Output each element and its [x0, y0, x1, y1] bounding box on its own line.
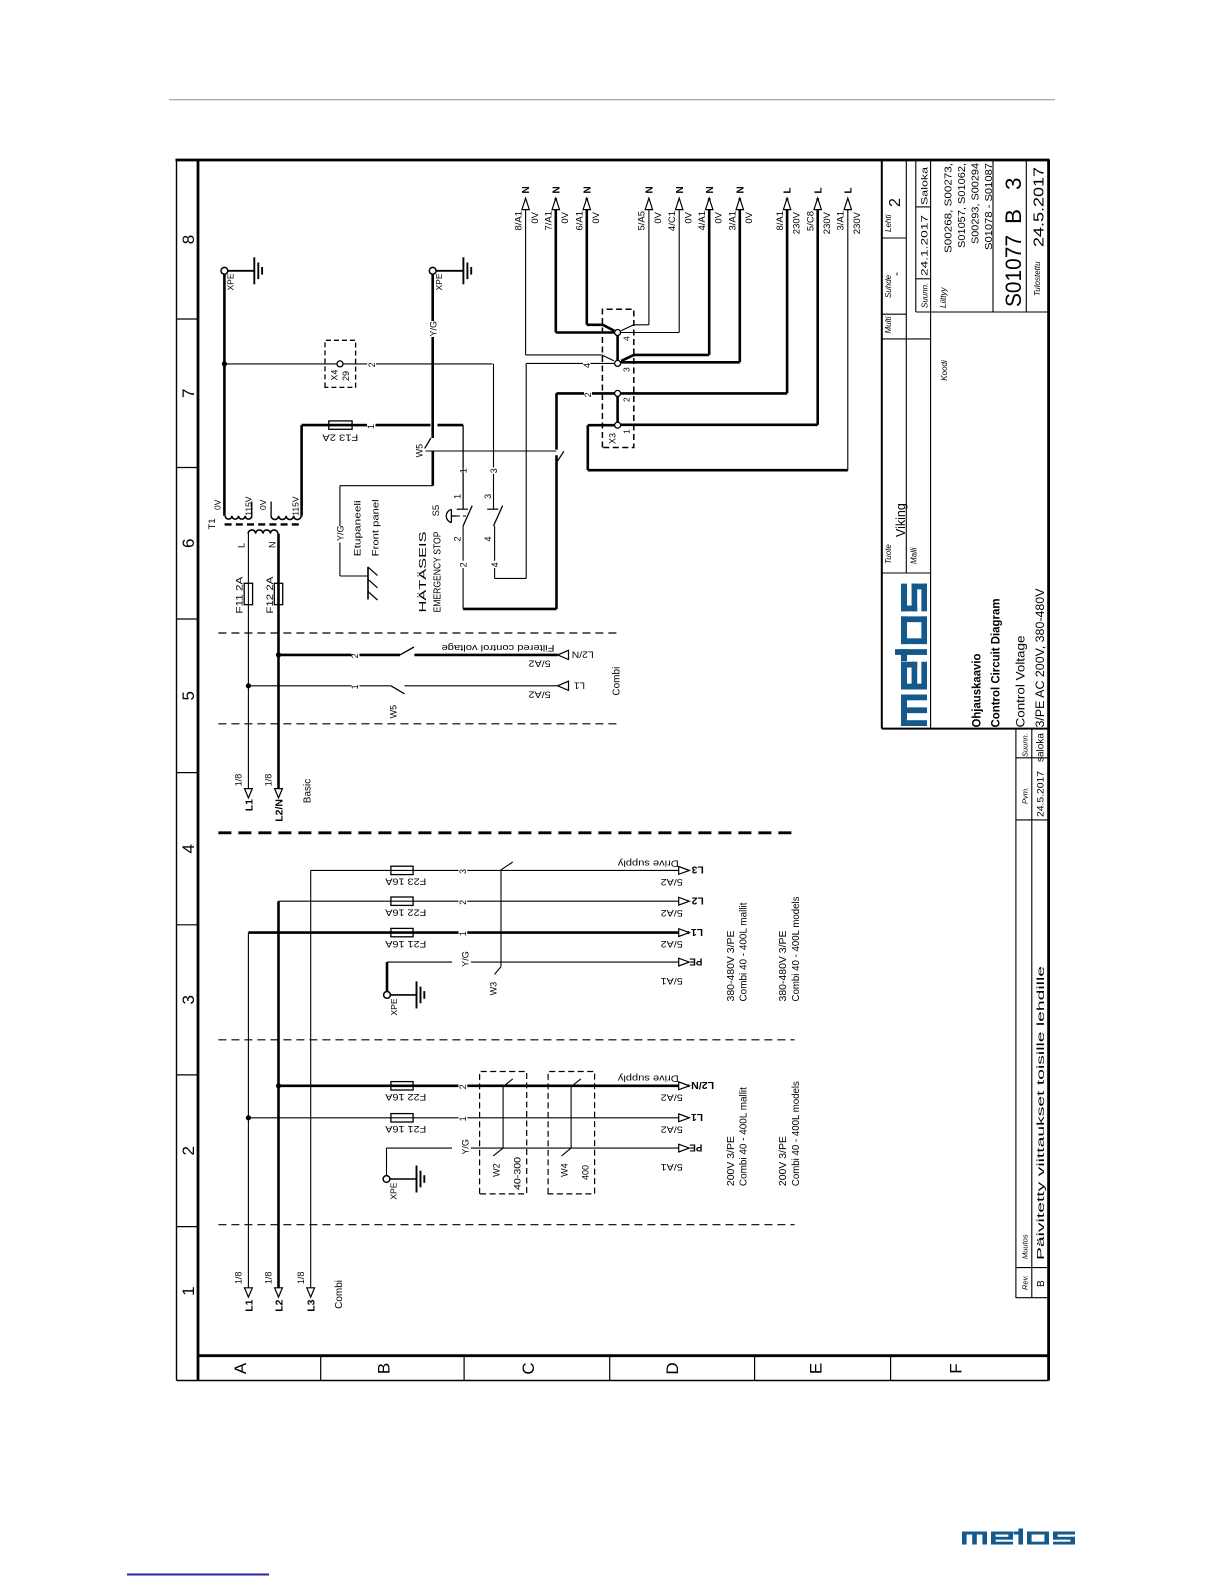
- svg-text:PE: PE: [689, 1141, 702, 1152]
- svg-text:0V: 0V: [530, 211, 541, 223]
- svg-text:L1: L1: [574, 681, 585, 691]
- svg-text:2: 2: [458, 900, 468, 905]
- svg-text:Suunn.: Suunn.: [1021, 733, 1030, 757]
- svg-text:5/A2: 5/A2: [661, 908, 683, 918]
- svg-text:T1: T1: [207, 518, 218, 529]
- svg-text:XPE: XPE: [226, 273, 236, 290]
- svg-text:230V: 230V: [791, 211, 802, 234]
- svg-text:N: N: [267, 542, 277, 549]
- svg-text:Muutos: Muutos: [1021, 1234, 1030, 1259]
- svg-text:L: L: [783, 187, 794, 193]
- svg-text:5/A1: 5/A1: [661, 1162, 683, 1172]
- svg-text:Päivitetty viittaukset toisill: Päivitetty viittaukset toisille lehdille: [1035, 966, 1047, 1260]
- svg-text:Combi 40 - 400L models: Combi 40 - 400L models: [791, 1081, 802, 1186]
- svg-text:3: 3: [483, 494, 493, 499]
- svg-text:Drive supply: Drive supply: [618, 1073, 679, 1084]
- svg-text:F23 16A: F23 16A: [385, 877, 426, 887]
- svg-text:L1: L1: [691, 926, 703, 937]
- svg-text:5/A2: 5/A2: [529, 690, 551, 700]
- svg-text:Y/G: Y/G: [461, 951, 471, 967]
- svg-text:6: 6: [179, 538, 198, 547]
- svg-text:3: 3: [1001, 177, 1026, 190]
- svg-text:Y/G: Y/G: [428, 321, 438, 337]
- svg-text:2: 2: [458, 1084, 468, 1089]
- svg-text:L1: L1: [243, 799, 255, 811]
- svg-text:5/A2: 5/A2: [661, 1092, 683, 1102]
- svg-text:W5: W5: [415, 444, 425, 458]
- svg-text:Lehti: Lehti: [884, 214, 893, 232]
- svg-text:L: L: [843, 187, 854, 193]
- svg-text:0V: 0V: [653, 211, 664, 223]
- svg-text:Control Circuit Diagram: Control Circuit Diagram: [991, 599, 1003, 728]
- svg-text:0V: 0V: [258, 499, 268, 510]
- svg-text:S01057, S01062,: S01057, S01062,: [956, 163, 968, 248]
- svg-text:7/A1: 7/A1: [544, 211, 555, 231]
- svg-text:N: N: [705, 186, 716, 193]
- svg-text:Pvm.: Pvm.: [1021, 787, 1030, 804]
- svg-text:2: 2: [622, 397, 632, 402]
- svg-text:N: N: [645, 186, 656, 193]
- svg-text:29: 29: [341, 371, 351, 381]
- svg-text:3/A1: 3/A1: [836, 211, 847, 231]
- svg-text:XPE: XPE: [434, 273, 444, 290]
- svg-text:Liittyy: Liittyy: [939, 287, 948, 308]
- svg-text:2: 2: [453, 536, 463, 541]
- svg-text:4: 4: [483, 536, 493, 541]
- svg-text:L2/N: L2/N: [691, 1079, 714, 1090]
- svg-text:Ohjauskaavio: Ohjauskaavio: [972, 654, 984, 728]
- svg-text:40-300: 40-300: [512, 1157, 522, 1190]
- svg-text:1/8: 1/8: [296, 1272, 306, 1285]
- svg-text:Combi: Combi: [612, 667, 623, 696]
- svg-text:3/A1: 3/A1: [728, 211, 739, 231]
- svg-text:1: 1: [366, 424, 376, 429]
- svg-text:F12 2A: F12 2A: [265, 577, 275, 614]
- svg-text:6/A1: 6/A1: [575, 211, 586, 231]
- svg-text:1: 1: [622, 429, 632, 434]
- svg-text:N: N: [675, 186, 686, 193]
- svg-text:Y/G: Y/G: [335, 525, 345, 541]
- svg-text:0V: 0V: [713, 211, 724, 223]
- svg-text:L3: L3: [306, 1299, 318, 1311]
- svg-text:S01077: S01077: [1001, 235, 1026, 307]
- svg-text:1: 1: [179, 1286, 198, 1295]
- svg-text:F13 2A: F13 2A: [322, 433, 358, 443]
- svg-text:1/8: 1/8: [234, 1272, 244, 1285]
- svg-text:Filtered control voltage: Filtered control voltage: [441, 642, 554, 653]
- svg-text:Front panel: Front panel: [371, 499, 382, 556]
- svg-text:XPE: XPE: [389, 998, 399, 1015]
- svg-text:1: 1: [452, 494, 462, 499]
- svg-text:0V: 0V: [744, 211, 755, 223]
- svg-text:F21 16A: F21 16A: [385, 939, 426, 949]
- svg-text:S01078 - S01087: S01078 - S01087: [983, 163, 995, 250]
- svg-text:X4: X4: [330, 370, 340, 381]
- svg-text:0V: 0V: [560, 211, 571, 223]
- svg-text:B: B: [1001, 209, 1026, 224]
- svg-text:380-480V 3/PE: 380-480V 3/PE: [726, 930, 737, 1001]
- svg-text:N: N: [521, 186, 532, 193]
- svg-text:XPE: XPE: [389, 1182, 399, 1199]
- svg-text:24.1.2017: 24.1.2017: [920, 215, 931, 276]
- svg-text:F22 16A: F22 16A: [385, 1092, 426, 1102]
- svg-text:2: 2: [367, 362, 377, 367]
- svg-text:3/PE AC 200V, 380-480V: 3/PE AC 200V, 380-480V: [1035, 588, 1047, 727]
- svg-text:E: E: [807, 1363, 826, 1374]
- svg-text:W5: W5: [389, 705, 399, 719]
- svg-text:L3: L3: [691, 864, 703, 875]
- svg-text:Combi 40 - 400L mallit: Combi 40 - 400L mallit: [739, 1087, 750, 1186]
- svg-text:5/A5: 5/A5: [637, 211, 648, 231]
- svg-text:7: 7: [179, 388, 198, 397]
- svg-text:Combi: Combi: [334, 1280, 345, 1309]
- svg-text:Control Voltage: Control Voltage: [1016, 636, 1028, 728]
- svg-text:1/8: 1/8: [264, 1272, 274, 1285]
- svg-text:5/A2: 5/A2: [661, 939, 683, 949]
- svg-text:8: 8: [179, 235, 198, 244]
- svg-text:F: F: [946, 1363, 965, 1373]
- svg-text:8/A1: 8/A1: [775, 211, 786, 231]
- svg-text:B: B: [1036, 1280, 1047, 1287]
- svg-text:1/8: 1/8: [234, 774, 244, 787]
- svg-text:L1: L1: [243, 1299, 255, 1311]
- svg-text:EMERGENCY STOP: EMERGENCY STOP: [433, 531, 444, 612]
- svg-text:PE: PE: [689, 955, 702, 966]
- svg-text:L2/N: L2/N: [572, 650, 594, 660]
- svg-text:Malli: Malli: [910, 547, 919, 564]
- svg-text:Suunn.: Suunn.: [921, 283, 930, 308]
- svg-text:Viking: Viking: [894, 503, 908, 537]
- svg-text:X3: X3: [608, 433, 618, 444]
- svg-text:115V: 115V: [243, 496, 253, 516]
- svg-text:230V: 230V: [852, 211, 863, 234]
- svg-text:200V 3/PE: 200V 3/PE: [726, 1136, 737, 1186]
- svg-text:Drive supply: Drive supply: [618, 857, 679, 868]
- svg-text:F21 16A: F21 16A: [385, 1124, 426, 1134]
- svg-text:24.5.2017: 24.5.2017: [1036, 771, 1047, 817]
- svg-text:Saloka: Saloka: [920, 166, 931, 205]
- svg-text:1: 1: [458, 931, 468, 936]
- svg-text:24.5.2017: 24.5.2017: [1032, 167, 1048, 247]
- svg-text:Combi 40 - 400L models: Combi 40 - 400L models: [791, 897, 802, 1002]
- svg-text:5/A1: 5/A1: [661, 976, 683, 986]
- svg-text:200V 3/PE: 200V 3/PE: [778, 1136, 789, 1186]
- svg-text:L2/N: L2/N: [273, 799, 285, 822]
- svg-text:L: L: [813, 187, 824, 193]
- svg-text:Basic: Basic: [303, 779, 314, 803]
- svg-text:3: 3: [489, 468, 499, 473]
- svg-text:1: 1: [458, 1116, 468, 1121]
- svg-text:B: B: [374, 1363, 393, 1374]
- svg-text:Koodi: Koodi: [940, 360, 949, 381]
- svg-text:S5: S5: [431, 505, 442, 517]
- svg-text:Tuote: Tuote: [884, 544, 893, 564]
- svg-text:Suhde: Suhde: [884, 274, 893, 298]
- svg-text:5: 5: [179, 691, 198, 700]
- svg-text:F11 2A: F11 2A: [235, 577, 245, 614]
- svg-text:L: L: [237, 543, 247, 548]
- svg-text:5/C8: 5/C8: [806, 211, 817, 231]
- svg-text:Etupaneeli: Etupaneeli: [353, 500, 364, 556]
- svg-text:3: 3: [179, 995, 198, 1004]
- svg-text:3: 3: [458, 869, 468, 874]
- svg-text:2: 2: [459, 562, 469, 567]
- svg-text:N: N: [735, 186, 746, 193]
- svg-text:8/A1: 8/A1: [513, 211, 524, 231]
- svg-text:HÄTÄSEIS: HÄTÄSEIS: [417, 532, 429, 613]
- svg-text:2: 2: [887, 198, 904, 207]
- svg-text:S00268, S00273,: S00268, S00273,: [943, 163, 955, 253]
- svg-text:C: C: [519, 1362, 538, 1374]
- svg-text:4/A1: 4/A1: [697, 211, 708, 231]
- svg-text:L2: L2: [273, 1299, 285, 1311]
- svg-text:230V: 230V: [822, 211, 833, 234]
- svg-text:0V: 0V: [591, 211, 602, 223]
- svg-text:4/C1: 4/C1: [667, 211, 678, 231]
- svg-text:N: N: [582, 186, 593, 193]
- svg-text:1: 1: [350, 684, 360, 689]
- svg-text:-: -: [889, 272, 903, 276]
- svg-text:2: 2: [350, 653, 360, 658]
- svg-text:0V: 0V: [212, 499, 222, 510]
- svg-text:5/A2: 5/A2: [661, 1124, 683, 1134]
- svg-text:A: A: [231, 1362, 250, 1374]
- svg-text:W3: W3: [489, 982, 499, 996]
- svg-text:D: D: [663, 1362, 682, 1374]
- svg-text:L2: L2: [691, 895, 703, 906]
- svg-text:saloka: saloka: [1036, 733, 1047, 762]
- svg-text:N: N: [551, 186, 562, 193]
- svg-text:0V: 0V: [683, 211, 694, 223]
- svg-text:4: 4: [490, 562, 500, 567]
- svg-text:5/A2: 5/A2: [661, 877, 683, 887]
- svg-text:4: 4: [179, 844, 198, 853]
- svg-text:1/8: 1/8: [264, 774, 274, 787]
- svg-text:L1: L1: [691, 1111, 703, 1122]
- svg-text:Y/G: Y/G: [461, 1139, 471, 1155]
- svg-text:400: 400: [580, 1165, 590, 1180]
- svg-text:W2: W2: [491, 1163, 501, 1177]
- svg-text:Combi 40 - 400L mallit: Combi 40 - 400L mallit: [739, 902, 750, 1001]
- svg-text:5/A2: 5/A2: [529, 659, 551, 669]
- svg-text:Rev.: Rev.: [1021, 1275, 1030, 1290]
- svg-text:W4: W4: [560, 1163, 570, 1177]
- svg-text:Tulostettu: Tulostettu: [1033, 261, 1042, 296]
- svg-text:380-480V 3/PE: 380-480V 3/PE: [778, 930, 789, 1001]
- svg-text:S00293, S00294: S00293, S00294: [970, 163, 982, 244]
- svg-text:4: 4: [622, 336, 632, 341]
- svg-text:Multi: Multi: [884, 316, 893, 333]
- svg-text:115V: 115V: [291, 496, 301, 516]
- svg-text:2: 2: [583, 392, 593, 397]
- svg-text:2: 2: [179, 1146, 198, 1155]
- svg-text:3: 3: [622, 367, 632, 372]
- svg-text:F22 16A: F22 16A: [385, 907, 426, 917]
